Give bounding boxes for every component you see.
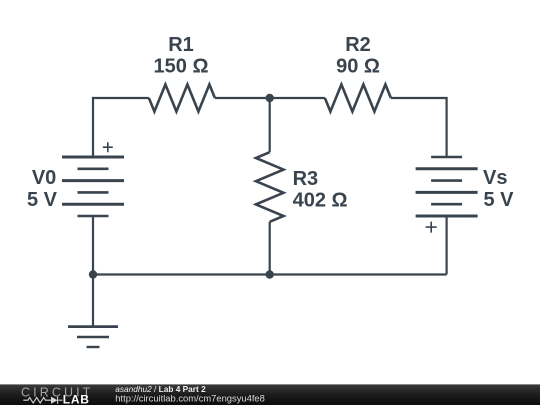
wire node C to ground — [92, 275, 94, 327]
footer bar — [0, 384, 540, 405]
wire bottom net: node C to Vs bottom — [93, 273, 447, 275]
wire node A to R2 left lead — [270, 97, 325, 99]
svg-text:90 Ω: 90 Ω — [336, 56, 380, 78]
svg-text:150 Ω: 150 Ω — [154, 56, 209, 78]
svg-text:http://circuitlab.com/cm7engsy: http://circuitlab.com/cm7engsyu4fe8 — [115, 393, 265, 404]
svg-text:V0: V0 — [32, 167, 56, 189]
wire R1 right lead to node A — [215, 97, 270, 99]
CircuitLab logo resistor-diode icon — [23, 397, 62, 404]
junction node B (bottom middle) — [266, 270, 274, 278]
svg-text:5 V: 5 V — [27, 189, 58, 211]
junction node C (bottom left) — [89, 270, 97, 278]
wire top-left: V0 top to R1 left lead — [93, 98, 149, 157]
battery Vs — [416, 157, 478, 233]
battery V0 — [62, 142, 124, 216]
wire R2 right lead to Vs top — [391, 98, 447, 157]
svg-text:5 V: 5 V — [484, 189, 515, 211]
junction node A (top middle) — [266, 94, 274, 102]
resistor R1 — [149, 85, 215, 112]
wire V0 bottom to node C — [92, 216, 94, 275]
resistor R3 — [256, 152, 284, 222]
svg-text:R2: R2 — [345, 34, 371, 56]
svg-text:LAB: LAB — [63, 392, 90, 405]
svg-text:Vs: Vs — [483, 167, 507, 189]
wire Vs bottom lead — [446, 216, 448, 275]
svg-text:R1: R1 — [168, 34, 194, 56]
resistor R2 — [325, 85, 391, 112]
Vs plus sign — [426, 222, 437, 233]
svg-text:402 Ω: 402 Ω — [293, 190, 348, 212]
wire R3 bottom lead to node B — [269, 222, 271, 275]
V0 plus sign — [103, 142, 113, 152]
ground — [68, 327, 118, 347]
svg-text:R3: R3 — [293, 168, 319, 190]
wire node A down to R3 top lead — [269, 98, 271, 152]
